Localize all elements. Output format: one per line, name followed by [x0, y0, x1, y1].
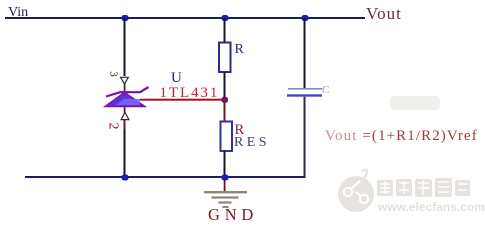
wire junction to RES — [224, 102, 226, 121]
wire TL431 cathode stub — [124, 84, 126, 92]
watermark logo disc — [338, 176, 374, 212]
junction top-middle — [222, 15, 229, 21]
ground bar 3 — [219, 201, 232, 203]
svg-text:3: 3 — [107, 71, 119, 77]
ground bar 4 — [223, 206, 229, 208]
ground bar 2 — [212, 196, 239, 198]
op-amp U1 TL431 cathode bar with wings — [106, 87, 149, 97]
op-amp U1 TL431 anode arrow — [121, 112, 129, 119]
junction top-right — [302, 15, 309, 21]
wire right column from top rail to capacitor — [304, 18, 306, 88]
watermark brand glyphs — [377, 178, 470, 197]
wire bottom rail — [25, 176, 306, 178]
svg-text:1TL431: 1TL431 — [160, 85, 220, 101]
capacitor C top plate — [288, 88, 322, 90]
svg-text:Vout: Vout — [366, 4, 402, 23]
junction divider node — [222, 97, 229, 103]
watermark faint smudge — [390, 96, 440, 110]
svg-text:Vout =(1+R1/R2)Vref: Vout =(1+R1/R2)Vref — [325, 128, 478, 144]
wire middle column from top rail to R — [224, 18, 226, 43]
junction bottom-middle — [222, 175, 229, 181]
svg-text:GND: GND — [208, 205, 258, 221]
wire TL431 anode stub — [124, 107, 126, 114]
resistor RES body — [221, 122, 233, 152]
ground bar 1 — [204, 191, 247, 193]
junction top-left — [122, 15, 129, 21]
capacitor C bottom plate — [287, 94, 322, 96]
svg-text:RES: RES — [234, 135, 270, 150]
svg-text:C: C — [322, 84, 329, 96]
wire capacitor to bottom rail — [304, 97, 306, 178]
wire TL431 reference line to divider junction — [140, 99, 225, 101]
svg-text:2: 2 — [105, 123, 120, 130]
junction bottom-left — [122, 175, 129, 181]
op-amp U1 TL431 cathode arrow — [121, 77, 129, 84]
svg-text:www.elecfans.com: www.elecfans.com — [377, 200, 485, 214]
op-amp U1 TL431 triangle highlight — [116, 99, 140, 105]
wire RES to bottom rail — [224, 151, 226, 177]
svg-text:U: U — [171, 70, 182, 86]
wire left column upper — [124, 18, 126, 76]
wire top rail Vin to Vout — [5, 17, 365, 19]
resistor R upper body — [219, 43, 231, 73]
op-amp U1 TL431 triangle body — [105, 93, 145, 107]
wire left column lower — [124, 120, 126, 130]
wire ground stub — [224, 180, 226, 192]
wire R to junction — [224, 72, 226, 100]
svg-text:R: R — [235, 42, 245, 57]
